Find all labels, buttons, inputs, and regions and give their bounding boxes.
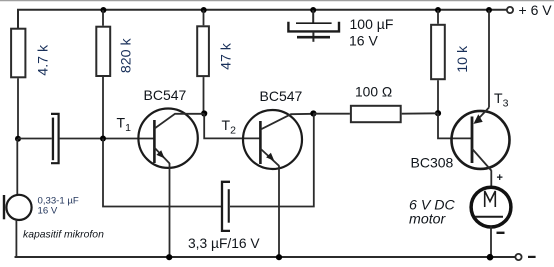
wire C1 to T1 base [60, 138, 154, 140]
wire node B down and right to C2 [103, 139, 222, 207]
svg-text:+ 6 V: + 6 V [519, 2, 553, 18]
capacitor C3 100uF electrolytic [288, 10, 339, 42]
svg-text:820 k: 820 k [119, 38, 135, 74]
capacitor C1 bracket plate [51, 114, 59, 163]
svg-text:16 V: 16 V [38, 205, 58, 216]
terminal minus [515, 254, 521, 260]
wire node A down to microphone [16, 139, 18, 195]
svg-text:10 k: 10 k [455, 45, 471, 73]
wire R2 bottom to base node [102, 77, 104, 139]
wire motor bottom to ground rail [490, 227, 492, 258]
terminal +6V [507, 7, 513, 13]
node motor on rail [487, 254, 494, 261]
wire node A to C1 [18, 138, 52, 140]
resistor R4 10k [431, 10, 471, 79]
wire top rail +6V [18, 10, 507, 28]
wire node C to T2 base [204, 114, 260, 139]
node T1 emitter on rail [166, 254, 172, 260]
transistor Q2 BC547 T2 [243, 110, 314, 169]
node E (R4 / R5 / T3 base) [435, 110, 441, 116]
wire T1 emitter to ground rail [169, 163, 171, 257]
resistor R3 47k [197, 10, 234, 76]
node A (R1 / C1 / mic junction) [15, 136, 21, 142]
wire R1 bottom to node [17, 78, 19, 139]
wire microphone bottom to ground rail [15, 220, 17, 257]
transistor Q3 BC308 T3 (PNP) [452, 10, 510, 171]
motor M1 6V DC [471, 187, 511, 227]
svg-text:motor: motor [409, 212, 447, 228]
wire bottom ground rail [15, 256, 516, 258]
node C (R3 / T1 collector / T2 base) [201, 110, 207, 116]
capacitor C1 0,33-1 uF (straight plate) [52, 118, 54, 161]
capacitor C2 3,3uF bracket plate [222, 182, 230, 231]
wire node E to T3 base [438, 113, 471, 138]
wire T2 emitter to ground rail [278, 166, 280, 258]
svg-text:3,3 µF/16 V: 3,3 µF/16 V [188, 236, 260, 251]
wire node D down and left to C2 [230, 114, 314, 207]
node top of 10k [435, 7, 441, 13]
node top of T3 emitter [486, 7, 492, 13]
node top of 47k [201, 7, 207, 13]
node top of 100uF [310, 7, 316, 13]
svg-text:BC547: BC547 [144, 87, 187, 103]
label minus dash [528, 256, 536, 258]
node B (R2 / T1 base / C2 junction) [100, 136, 106, 142]
svg-text:100 Ω: 100 Ω [355, 85, 392, 100]
wire R4 bottom to node E [437, 80, 439, 113]
resistor R5 100 Ohm [313, 85, 438, 123]
wire T3 collector to motor [490, 170, 492, 188]
label - (motor negative) [497, 232, 505, 234]
svg-text:T3: T3 [494, 90, 509, 110]
svg-text:4.7 k: 4.7 k [36, 44, 52, 76]
capacitor C2 straight plate [228, 189, 230, 223]
wire R3 bottom to node C [203, 77, 205, 113]
transistor Q1 BC547 T1 [138, 109, 204, 168]
scan border artifact top [0, 0, 554, 2]
svg-text:+: + [497, 172, 503, 184]
svg-text:16 V: 16 V [349, 33, 378, 49]
svg-text:47 k: 47 k [218, 42, 234, 70]
svg-text:T2: T2 [222, 117, 237, 137]
svg-text:100 µF: 100 µF [350, 16, 394, 32]
svg-text:BC308: BC308 [411, 155, 454, 171]
node D (T2 collector / R5 / C2 junction) [310, 110, 316, 116]
svg-text:BC547: BC547 [260, 88, 303, 104]
resistor R1 4.7k [11, 29, 52, 78]
node T2 emitter on rail [276, 254, 282, 260]
node top of 820k [100, 7, 106, 13]
resistor R2 820k [96, 10, 134, 76]
svg-text:kapasitif mikrofon: kapasitif mikrofon [23, 229, 104, 240]
svg-text:T1: T1 [117, 115, 132, 135]
microphone MIC (kapasitif mikrofon) [3, 195, 32, 220]
